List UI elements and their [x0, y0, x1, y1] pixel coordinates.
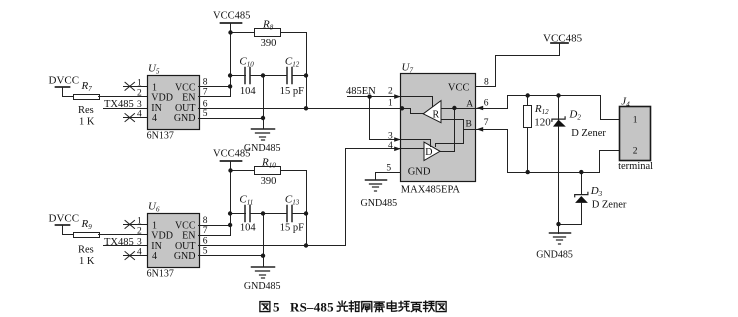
- svg-text:VDD: VDD: [151, 93, 173, 104]
- svg-text:4: 4: [388, 141, 393, 151]
- svg-text:VCC485: VCC485: [213, 11, 250, 22]
- svg-text:Res: Res: [78, 245, 94, 256]
- svg-text:R: R: [433, 110, 440, 121]
- svg-text:104: 104: [240, 223, 257, 234]
- svg-text:DVCC: DVCC: [49, 75, 80, 87]
- svg-text:D: D: [425, 147, 432, 158]
- svg-text:D Zener: D Zener: [571, 128, 606, 139]
- svg-text:EN: EN: [182, 93, 195, 104]
- svg-text:390: 390: [261, 38, 277, 49]
- svg-text:7: 7: [203, 226, 208, 236]
- svg-text:GND485: GND485: [244, 281, 281, 292]
- svg-text:1 K: 1 K: [79, 256, 95, 267]
- svg-text:7: 7: [203, 88, 208, 98]
- svg-text:VCC: VCC: [448, 83, 470, 94]
- svg-text:EN: EN: [182, 231, 195, 242]
- svg-text:4: 4: [137, 248, 142, 258]
- svg-text:390: 390: [261, 176, 277, 187]
- svg-text:5: 5: [273, 299, 280, 314]
- svg-text:5: 5: [203, 247, 208, 257]
- svg-text:1: 1: [388, 98, 393, 108]
- svg-text:104: 104: [240, 86, 257, 97]
- svg-text:6N137: 6N137: [147, 269, 174, 280]
- svg-text:B: B: [466, 119, 472, 129]
- svg-text:8: 8: [484, 78, 489, 88]
- svg-text:15 pF: 15 pF: [280, 223, 304, 234]
- svg-text:VCC485: VCC485: [543, 33, 583, 45]
- svg-text:1: 1: [137, 78, 142, 88]
- svg-text:GND: GND: [408, 167, 431, 178]
- svg-text:4: 4: [152, 113, 157, 124]
- svg-text:1: 1: [137, 216, 142, 226]
- svg-text:terminal: terminal: [618, 161, 653, 172]
- svg-text:15 pF: 15 pF: [280, 86, 304, 97]
- svg-text:4: 4: [137, 110, 142, 120]
- svg-text:GND485: GND485: [244, 143, 281, 154]
- svg-text:8: 8: [203, 78, 208, 88]
- svg-text:6: 6: [203, 237, 208, 247]
- svg-text:485EN: 485EN: [346, 86, 376, 97]
- svg-text:MAX485EPA: MAX485EPA: [401, 185, 461, 196]
- svg-text:Res: Res: [78, 105, 94, 116]
- svg-text:2: 2: [137, 88, 142, 98]
- svg-text:A: A: [466, 99, 473, 109]
- svg-text:2: 2: [388, 87, 393, 97]
- svg-text:7: 7: [484, 118, 489, 128]
- svg-text:1: 1: [633, 115, 638, 125]
- svg-text:1 K: 1 K: [79, 117, 95, 128]
- svg-text:4: 4: [152, 251, 157, 262]
- svg-text:VDD: VDD: [151, 231, 173, 242]
- svg-text:GND: GND: [174, 251, 196, 262]
- svg-text:5: 5: [203, 109, 208, 119]
- svg-text:5: 5: [386, 163, 391, 173]
- svg-text:6: 6: [484, 98, 489, 108]
- svg-text:GND: GND: [174, 113, 196, 124]
- svg-text:RS–485: RS–485: [290, 299, 334, 314]
- svg-text:8: 8: [203, 216, 208, 226]
- svg-text:D Zener: D Zener: [592, 200, 627, 211]
- svg-text:120: 120: [534, 117, 551, 129]
- svg-text:3: 3: [137, 238, 142, 248]
- svg-text:GND485: GND485: [536, 250, 573, 261]
- svg-text:DVCC: DVCC: [49, 213, 80, 225]
- svg-text:2: 2: [137, 227, 142, 237]
- svg-text:3: 3: [137, 100, 142, 110]
- svg-text:TX485: TX485: [104, 237, 134, 248]
- svg-text:TX485: TX485: [104, 99, 134, 110]
- svg-text:6N137: 6N137: [147, 131, 174, 142]
- svg-text:6: 6: [203, 99, 208, 109]
- svg-text:2: 2: [633, 147, 638, 157]
- svg-text:GND485: GND485: [361, 198, 398, 209]
